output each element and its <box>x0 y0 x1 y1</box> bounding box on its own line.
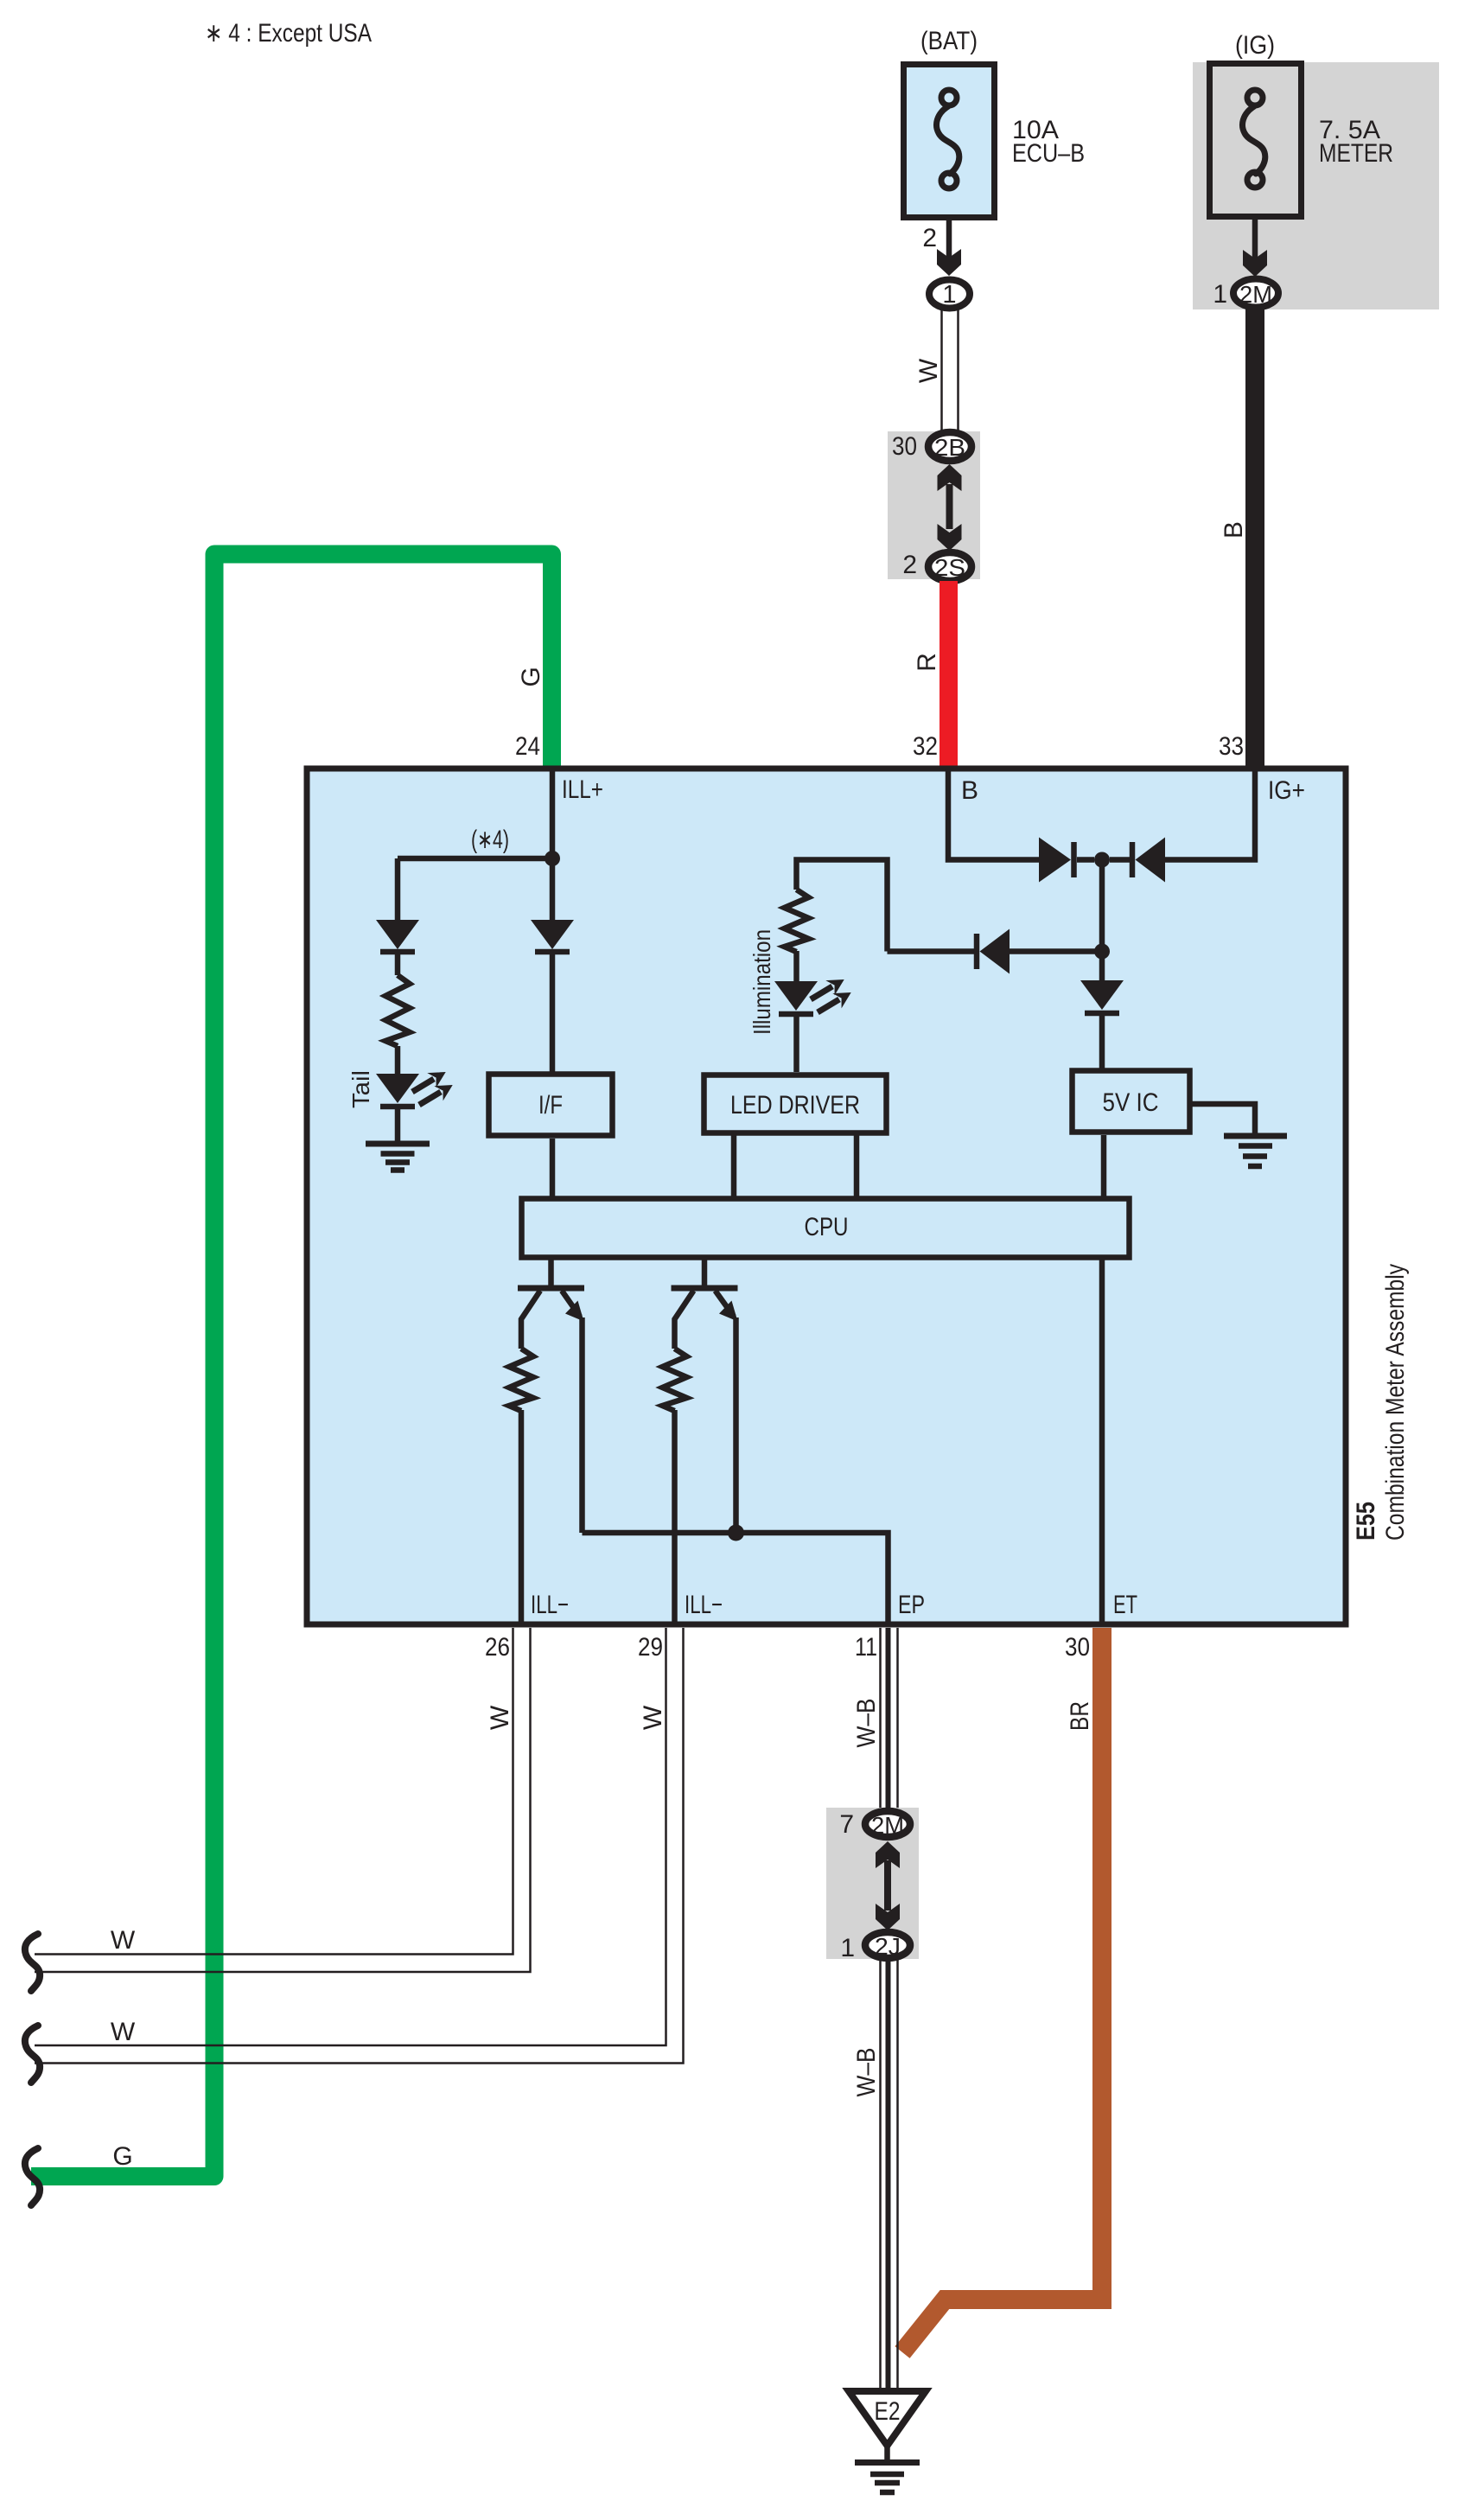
svg-text:ILL−: ILL− <box>685 1591 723 1619</box>
svg-text:(∗4): (∗4) <box>471 826 509 854</box>
wire diode A to resistor <box>395 954 401 975</box>
fuse ECU-B element <box>937 90 959 188</box>
svg-text:EP: EP <box>898 1591 925 1619</box>
shaft between arrows <box>946 484 953 529</box>
arrow up to 2M <box>876 1841 900 1868</box>
wire W (26) white <box>35 1628 531 1972</box>
svg-text:2: 2 <box>902 551 917 579</box>
svg-text:30: 30 <box>892 432 917 461</box>
svg-text:1: 1 <box>840 1934 855 1962</box>
svg-text:2M: 2M <box>1239 281 1272 308</box>
svg-text:24: 24 <box>515 732 540 761</box>
svg-text:IG+: IG+ <box>1268 776 1305 805</box>
arrow into connector 1 <box>937 249 961 276</box>
wire branch to Tail <box>398 856 552 862</box>
fuse METER element <box>1243 90 1265 188</box>
junction box 2B/2S gray <box>888 431 980 579</box>
box CPU <box>522 1199 1130 1258</box>
wire R (red) 2S to terminal 32 <box>940 581 958 769</box>
wire diode B to I/F <box>550 954 556 1072</box>
arrow up to 2B <box>938 464 962 491</box>
svg-text:W: W <box>111 2018 136 2046</box>
svg-text:R: R <box>913 653 941 672</box>
svg-text:2B: 2B <box>934 434 965 461</box>
squiggle W stub 2 <box>25 2026 40 2083</box>
svg-text:G: G <box>517 667 545 686</box>
wire EP bus <box>583 1533 889 1624</box>
LED Tail <box>376 1074 419 1107</box>
svg-text:(BAT): (BAT) <box>920 27 978 55</box>
svg-text:2M: 2M <box>871 1812 904 1839</box>
svg-text:W: W <box>486 1705 514 1730</box>
svg-text:2J: 2J <box>875 1933 901 1960</box>
svg-text:26: 26 <box>485 1633 510 1662</box>
svg-text:30: 30 <box>1065 1633 1090 1662</box>
svg-text:W: W <box>111 1926 136 1955</box>
svg-text:ILL−: ILL− <box>531 1591 569 1619</box>
svg-text:BR: BR <box>1066 1701 1094 1731</box>
wire ILL- 26 inside <box>519 1410 525 1624</box>
svg-text:LED DRIVER: LED DRIVER <box>730 1091 860 1120</box>
svg-text:ILL+: ILL+ <box>562 775 603 804</box>
wire G green loop <box>31 554 552 2177</box>
box LED DRIVER <box>704 1075 887 1133</box>
junction dot 2 <box>1094 944 1110 960</box>
wire E2 to ground <box>884 2446 890 2459</box>
arrow into connector 2M <box>1243 250 1267 277</box>
wire resistor to LED tail <box>395 1046 401 1074</box>
LED illumination <box>774 981 818 1014</box>
svg-text:Illumination: Illumination <box>748 929 775 1035</box>
resistor illumination <box>785 890 809 952</box>
connector oval 2M (floor) <box>865 1811 910 1837</box>
svg-text:E55: E55 <box>1352 1502 1380 1541</box>
diode D4 (to 5V IC) <box>1080 952 1124 1069</box>
svg-text:W–B: W–B <box>852 2048 881 2097</box>
connector oval 1 <box>929 280 970 309</box>
box 5V IC <box>1073 1071 1190 1132</box>
wire 5V IC to CPU <box>1101 1135 1107 1197</box>
wire ILL+ into box <box>550 769 556 920</box>
svg-text:ET: ET <box>1113 1591 1137 1619</box>
wire B terminal into box <box>948 769 1039 860</box>
svg-text:W: W <box>639 1705 667 1730</box>
ground point E2 triangle <box>849 2391 926 2446</box>
wire W-B (lower) <box>881 1960 898 2389</box>
svg-text:E2: E2 <box>875 2397 901 2426</box>
combination meter assembly box <box>307 769 1346 1624</box>
svg-text:Tail: Tail <box>347 1070 374 1108</box>
wire illumination feed (top) <box>797 860 888 952</box>
fuse ECU-B box <box>904 65 995 218</box>
svg-text:CPU: CPU <box>805 1213 849 1241</box>
diode D1 (from B) <box>1039 838 1094 883</box>
svg-text:33: 33 <box>1219 732 1244 761</box>
svg-text:2: 2 <box>922 224 937 252</box>
squiggle G stub <box>25 2148 40 2205</box>
squiggle W stub 1 <box>25 1934 40 1991</box>
svg-text:2S: 2S <box>934 554 965 581</box>
svg-text:W: W <box>914 358 943 383</box>
wire ET inside <box>1099 1258 1105 1624</box>
svg-text:METER: METER <box>1319 139 1393 168</box>
svg-text:(IG): (IG) <box>1235 31 1275 60</box>
diode D2 (from IG+) <box>1110 838 1165 883</box>
svg-text:1: 1 <box>1213 280 1227 309</box>
wire LED to LED DRIVER <box>793 1017 799 1072</box>
wire fuse to connector 1 <box>946 220 952 266</box>
diode A (tail branch) <box>376 920 419 952</box>
svg-text:B: B <box>1220 521 1248 539</box>
connector oval 2M <box>1233 279 1278 308</box>
svg-text:I/F: I/F <box>538 1091 563 1120</box>
wire W-B (EP/11) upper <box>881 1628 898 1809</box>
wire 5V IC to internal ground <box>1190 1104 1255 1136</box>
fuse METER box <box>1210 64 1302 217</box>
LED illumination arrows <box>811 972 856 1012</box>
transistor Q1 <box>518 1260 584 1533</box>
resistor Q2 load <box>663 1349 687 1411</box>
connector oval 2S <box>928 552 971 581</box>
svg-text:7: 7 <box>839 1810 854 1839</box>
shaft between arrows <box>884 1860 891 1911</box>
wire down to diode A <box>395 858 401 920</box>
gray region IG <box>1193 62 1439 309</box>
resistor Q1 load <box>509 1349 533 1411</box>
transistor Q2 <box>672 1260 738 1533</box>
wire B (black) 2M to terminal 33 <box>1245 308 1264 769</box>
resistor tail <box>385 975 410 1046</box>
ground (E2) <box>855 2463 920 2493</box>
wire BR (brown) <box>902 1628 1102 2352</box>
svg-text:ECU–B: ECU–B <box>1012 139 1085 168</box>
svg-text:11: 11 <box>855 1633 877 1662</box>
wire W (29) white <box>35 1628 684 2064</box>
svg-text:1: 1 <box>942 281 956 309</box>
svg-text:29: 29 <box>638 1633 663 1662</box>
junction dot ILL+ <box>545 851 560 866</box>
junction box 2M/2J gray <box>826 1808 919 1959</box>
wire ILL- 29 inside <box>672 1410 678 1624</box>
ground (5V IC) <box>1224 1136 1287 1166</box>
box I/F <box>489 1075 613 1136</box>
wire IG+ terminal into box <box>1165 769 1255 860</box>
LED Tail arrows <box>412 1064 457 1105</box>
svg-text:32: 32 <box>913 732 938 761</box>
ground (tail) <box>366 1144 430 1171</box>
diode D3 (to illumination feed) <box>888 929 1103 974</box>
wire junction1 to junction2 <box>1099 860 1105 952</box>
svg-text:G: G <box>112 2142 132 2171</box>
arrow down to 2J <box>876 1904 900 1930</box>
svg-text:B: B <box>961 776 978 805</box>
wire fuse to connector 2M <box>1252 220 1258 266</box>
wires LED DRIVER to CPU <box>731 1133 737 1197</box>
wire W (white) oval1 to 2B <box>942 309 959 431</box>
svg-text:Combination Meter Assembly: Combination Meter Assembly <box>1381 1264 1410 1541</box>
svg-text:W–B: W–B <box>852 1699 881 1748</box>
wire LED to ground <box>395 1109 401 1143</box>
junction dot EP <box>728 1525 744 1541</box>
svg-text:∗ 4 : Except USA: ∗ 4 : Except USA <box>205 19 372 48</box>
wire I/F to CPU <box>550 1139 556 1197</box>
arrow down to 2S <box>938 524 962 551</box>
junction dot 1 <box>1094 852 1110 868</box>
svg-text:5V IC: 5V IC <box>1103 1088 1159 1117</box>
diode B (ILL+ branch) <box>531 920 574 952</box>
wire resistor to LED <box>793 951 799 981</box>
connector oval 2J <box>865 1932 910 1958</box>
connector oval 2B <box>928 432 971 461</box>
